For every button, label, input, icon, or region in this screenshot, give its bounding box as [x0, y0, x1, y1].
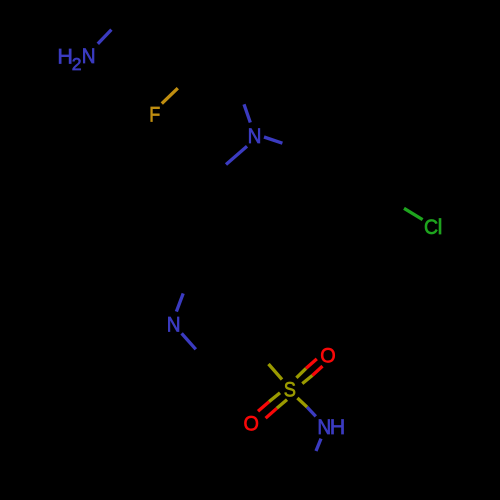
svg-text:H: H: [57, 44, 73, 68]
svg-text:N: N: [167, 313, 181, 337]
svg-text:l: l: [438, 215, 443, 239]
svg-text:C: C: [424, 215, 438, 239]
svg-text:S: S: [284, 377, 296, 401]
svg-text:H: H: [330, 415, 346, 439]
svg-text:2: 2: [72, 54, 82, 74]
svg-text:N: N: [248, 124, 262, 148]
svg-text:F: F: [149, 103, 160, 127]
svg-text:N: N: [82, 44, 96, 68]
svg-text:O: O: [320, 344, 335, 368]
svg-text:O: O: [244, 412, 259, 436]
